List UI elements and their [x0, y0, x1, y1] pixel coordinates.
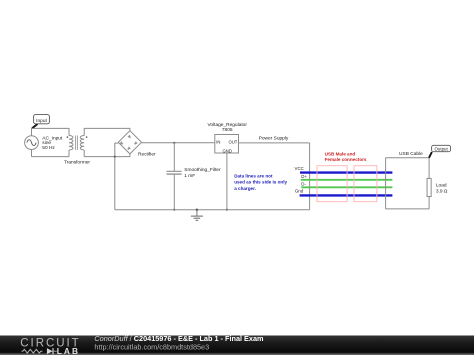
wire secondary bottom [84, 156, 115, 158]
svg-text:7805: 7805 [222, 127, 233, 133]
wire to rectifier bottom corner [115, 154, 130, 157]
wire Gnd [300, 194, 393, 196]
svg-text:Load: Load [436, 182, 447, 188]
svg-text:http://circuitlab.com/c8bmdtst: http://circuitlab.com/c8bmdtstd85e3 [94, 343, 209, 352]
wire rectifier to regulator [142, 142, 215, 144]
wire D- [301, 186, 392, 188]
annotation USB Male and Female connectors [325, 151, 367, 162]
svg-text:a charger.: a charger. [234, 186, 256, 191]
svg-text:Gnd: Gnd [295, 189, 304, 194]
ground [191, 209, 203, 221]
svg-text:OUT: OUT [228, 139, 237, 144]
junction transformer bottom [114, 156, 116, 158]
svg-text:1 mF: 1 mF [184, 173, 195, 179]
wire USB cable box left [385, 158, 387, 209]
voltage regulator U1 7805 [215, 135, 239, 154]
wire down to ground rail [114, 157, 116, 210]
wire D+ [301, 179, 393, 181]
annotation box USB male connector [317, 166, 347, 202]
transformer T1 [67, 128, 88, 157]
junction capacitor bottom [173, 209, 175, 211]
svg-text:Female connectors: Female connectors [325, 157, 367, 162]
wire load top [428, 158, 430, 179]
wire USB cable box top [386, 157, 430, 159]
wire ground rail [115, 209, 310, 211]
logo CircuitLab [20, 338, 80, 355]
svg-text:Power Supply: Power Supply [259, 136, 289, 142]
wire regulator OUT to right [239, 142, 310, 144]
footer credit text [94, 334, 264, 352]
wire to rectifier left corner [115, 143, 119, 157]
junction regulator gnd rail [226, 209, 228, 211]
svg-text:50 Hz: 50 Hz [42, 145, 55, 151]
wire load bottom [428, 197, 430, 209]
svg-text:Smoothing_Filter: Smoothing_Filter [184, 167, 221, 173]
svg-text:Transformer: Transformer [64, 159, 90, 165]
junction capacitor top [173, 142, 175, 144]
resistor R1 Load [427, 178, 431, 196]
svg-text:USB Male and: USB Male and [325, 151, 356, 156]
label Smoothing_Filter value [184, 167, 221, 179]
svg-text:ConorDuff / C20415976 - E&E -: ConorDuff / C20415976 - E&E - Lab 1 - Fi… [94, 334, 264, 343]
label Load 3.9 ohm [436, 182, 448, 194]
wire USB cable box bottom [386, 208, 430, 210]
wire AC source top stub [31, 128, 33, 136]
svg-text:GND: GND [223, 148, 232, 153]
annotation Data lines note [234, 173, 287, 191]
svg-text:VCC: VCC [295, 166, 304, 171]
label AC_Input value [42, 136, 63, 151]
wire secondary top [84, 128, 130, 130]
svg-text:D+: D+ [301, 174, 307, 179]
svg-text:Input: Input [36, 118, 47, 124]
wire AC source top [32, 127, 70, 129]
wire right vertical [309, 143, 311, 210]
svg-text:Output: Output [435, 146, 449, 151]
svg-text:3.9 Ω: 3.9 Ω [436, 189, 448, 195]
annotation box USB female connector [354, 166, 377, 202]
svg-text:Data lines are not: Data lines are not [234, 173, 273, 178]
label Voltage_Regulator 7805 [207, 122, 247, 133]
capacitor C1 Smoothing_Filter [167, 143, 182, 210]
wire AC source bottom stub [31, 150, 33, 157]
svg-text:D-: D- [301, 181, 306, 186]
svg-text:Voltage_Regulator: Voltage_Regulator [207, 122, 247, 128]
wire AC source bottom [32, 156, 70, 158]
net flag Output [429, 145, 451, 157]
svg-text:used as this side is only: used as this side is only [234, 180, 287, 185]
net flag Input [32, 115, 49, 129]
svg-text:Rectifier: Rectifier [138, 152, 156, 158]
svg-text:USB Cable: USB Cable [399, 151, 423, 157]
footer bar [0, 336, 474, 355]
wire VCC [300, 171, 392, 173]
svg-text:IN: IN [216, 139, 220, 144]
wire regulator GND down [226, 153, 228, 210]
svg-text:LAB: LAB [57, 346, 80, 355]
AC source V1 [25, 136, 39, 150]
rectifier D1 bridge [118, 131, 141, 154]
